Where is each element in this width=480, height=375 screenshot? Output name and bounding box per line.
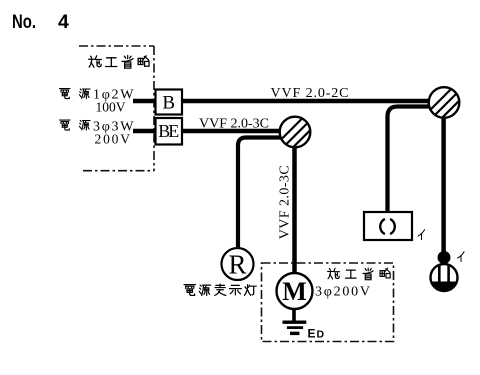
svg-text:D: D	[317, 329, 325, 341]
svg-text:VVF 2.0-3C: VVF 2.0-3C	[199, 117, 269, 132]
svg-text:B: B	[162, 93, 175, 114]
svg-text:No.: No.	[12, 11, 36, 33]
label イ (switch)	[457, 252, 464, 262]
wire: branch from right joint box down to box switch	[388, 107, 433, 213]
label 電源表示灯	[184, 285, 195, 296]
wire: branch from left joint box down to lamp R	[238, 138, 284, 249]
svg-text:VVF 2.0-2C: VVF 2.0-2C	[271, 86, 349, 101]
svg-text:R: R	[228, 250, 246, 280]
ceiling fixture (circle, two bars, filled bottom)	[431, 264, 458, 291]
wire: 200V feed through breaker BE to left joint box	[133, 129, 281, 134]
label 電源3φ3W 200V	[60, 120, 71, 130]
joint box (left, hatched circle)	[280, 117, 311, 148]
wire: right joint box down to switch ●	[441, 116, 446, 252]
svg-text:4: 4	[58, 11, 69, 33]
joint box (right, hatched circle)	[429, 87, 460, 118]
svg-text:200V: 200V	[95, 132, 131, 147]
breaker B	[156, 90, 183, 115]
ground symbol ED	[283, 321, 307, 324]
motor M	[277, 273, 313, 309]
dashed box (upper-left, construction omitted)	[79, 45, 154, 47]
lamp R (power indicator)	[222, 248, 254, 280]
dashed box (lower, construction omitted around motor)	[262, 263, 394, 342]
label 電源1φ2W 100V	[60, 89, 71, 99]
svg-text:VVF 2.0-3C: VVF 2.0-3C	[278, 165, 293, 239]
svg-text:BE: BE	[158, 121, 179, 141]
box switch ( )	[364, 212, 412, 240]
wire: 100V feed through breaker B to right joint box	[133, 99, 430, 104]
svg-text:100V: 100V	[96, 99, 126, 114]
label 施工省略 (lower)	[328, 268, 340, 279]
switch ● イ	[438, 251, 451, 264]
svg-text:E: E	[308, 327, 316, 341]
label 施工省略 (upper)	[89, 56, 102, 67]
label イ (box switch)	[418, 230, 425, 240]
svg-text:3φ200V: 3φ200V	[315, 285, 370, 300]
ground wire stub	[292, 309, 296, 322]
wire: left joint box down to motor M	[292, 145, 297, 274]
svg-text:M: M	[282, 277, 307, 306]
breaker BE	[156, 118, 183, 145]
